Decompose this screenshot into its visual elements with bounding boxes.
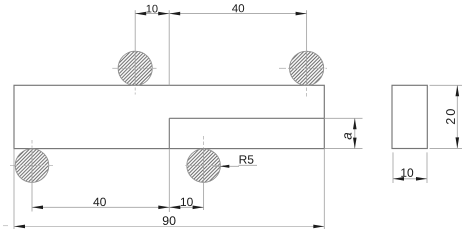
dimension side 20: arrowheads	[456, 85, 460, 148]
dimension side 20: value label (rotated)	[446, 109, 455, 124]
centerline roller bottom-left	[10, 140, 53, 166]
dimension bottom 40: value label	[93, 198, 106, 206]
dimension a: arrowheads	[353, 118, 357, 148]
dimension top 10: dimension line	[135, 13, 169, 15]
dimension side 10: extension lines	[393, 152, 427, 183]
roller bottom-left (hatched circle)	[15, 149, 49, 183]
dimension top 10: value label	[147, 5, 158, 13]
dimension bottom 10: dimension line	[169, 206, 203, 208]
dimension 90: value label	[163, 216, 176, 225]
dimension top 40: dimension line	[169, 13, 306, 15]
dimension bottom 10: extension line right (through roller bottom-middle)	[203, 149, 205, 210]
roller top-right (hatched circle)	[290, 51, 324, 85]
centerline roller bottom-middle	[185, 136, 224, 166]
dimension 90: arrowheads	[14, 225, 324, 229]
dimension side 10: value label	[401, 168, 413, 176]
dimension bottom 40: extension line left (through roller bottom-left)	[31, 149, 33, 212]
dimension 90: extension line left (beam left edge extended)	[13, 149, 15, 229]
dimension bottom 40: arrowheads	[32, 206, 169, 210]
dimension side 20: dimension line	[456, 85, 458, 148]
dimension top 40: arrowheads	[169, 12, 306, 16]
dimension a: dimension line	[354, 118, 356, 148]
dimension side 20: extension lines	[430, 85, 463, 148]
radius label R5	[240, 155, 254, 163]
beam specimen outline (front view)	[14, 85, 324, 148]
dimension top 40: extension line right	[306, 10, 308, 85]
stray tick left of 90 dimension	[3, 225, 8, 227]
dimension top 40: value label	[232, 4, 244, 12]
dimension side 10: arrowheads	[393, 177, 427, 181]
centerline roller top-left	[112, 68, 156, 94]
dimension bottom 10: value label	[181, 198, 193, 206]
roller bottom-middle (hatched circle)	[187, 149, 221, 183]
dimension side 10: dimension line	[393, 178, 427, 180]
step line (half-depth line inside beam)	[169, 118, 324, 148]
dimension 90: dimension line	[14, 225, 324, 227]
dimension a: extension lines	[324, 118, 362, 148]
dimension 90: extension line right (beam right edge extended)	[323, 149, 325, 229]
dimension top 10: arrowheads	[135, 12, 169, 16]
dimension bottom: extension line middle (step edge extended)	[168, 149, 170, 212]
roller top-left (hatched circle)	[118, 51, 152, 85]
dimension bottom 40: dimension line	[32, 206, 169, 208]
dimension bottom 10: arrowheads	[169, 206, 203, 210]
centerline roller top-right	[279, 68, 329, 96]
side view rectangle (cross-section)	[392, 85, 427, 148]
dimension top 10: extension lines	[135, 10, 169, 85]
radius leader R5: leader line and arrowhead	[213, 165, 239, 167]
dimension a: value label (rotated)	[344, 133, 351, 140]
